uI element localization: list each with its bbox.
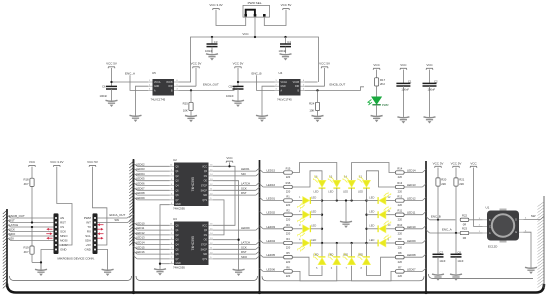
left bus wall (hatched): [3, 209, 7, 288]
svg-text:SDA: SDA: [85, 239, 91, 243]
svg-text:ENC_A: ENC_A: [442, 228, 452, 232]
svg-text:LED09: LED09: [407, 239, 416, 243]
svg-text:16: 16: [210, 165, 212, 167]
wire LED04 to ring: [293, 242, 303, 244]
ground (LED ring common): [340, 199, 352, 228]
svg-text:74LVC1T45: 74LVC1T45: [151, 98, 166, 102]
LED ring bottom diode 8: [358, 243, 371, 270]
svg-text:C4: C4: [287, 40, 291, 44]
svg-text:74HC595: 74HC595: [191, 236, 195, 250]
svg-text:LED11: LED11: [136, 226, 145, 230]
svg-text:12: 12: [210, 243, 212, 245]
LED ring left diode 1: [298, 195, 322, 209]
svg-text:LED: LED: [328, 190, 333, 194]
svg-text:SDI: SDI: [241, 172, 246, 176]
power selector header PWR SEL: [243, 5, 270, 17]
net LED03 + resistor R3 220: [260, 223, 293, 236]
svg-text:R17: R17: [380, 78, 386, 82]
net LED10 + resistor R10 220: [396, 223, 427, 236]
svg-text:220: 220: [286, 190, 291, 194]
wire LED11 to ring: [386, 214, 396, 216]
power flag VCC 5V (U5 DIR): [191, 62, 202, 69]
svg-text:LED12: LED12: [407, 197, 416, 201]
pin stubs U4: [275, 80, 306, 90]
pin stubs U3: [170, 224, 214, 264]
svg-text:6: 6: [171, 193, 172, 195]
net ENC_A wire: [426, 228, 460, 233]
net LED11 + resistor R11 220: [396, 209, 427, 222]
net RST from left wall: [7, 218, 54, 222]
svg-text:VCCB: VCCB: [166, 82, 173, 84]
svg-text:SDI: SDI: [9, 236, 14, 240]
svg-text:0R: 0R: [463, 236, 466, 240]
svg-text:VCC: VCC: [426, 63, 433, 67]
svg-text:SW: SW: [531, 214, 536, 218]
svg-text:220: 220: [286, 260, 291, 264]
LED ring top diode 15: [328, 175, 341, 201]
svg-text:220: 220: [286, 203, 291, 207]
svg-text:PWR SEL.: PWR SEL.: [248, 1, 263, 5]
svg-text:LED: LED: [369, 238, 374, 242]
svg-text:220: 220: [286, 246, 291, 250]
capacitor C4 100nF: [279, 37, 292, 54]
LED ring top diode 13: [358, 175, 371, 201]
bottom common bus (thick): [7, 284, 544, 293]
svg-text:VCC: VCC: [242, 32, 249, 36]
svg-text:74HC595: 74HC595: [191, 177, 195, 191]
ground (C2): [424, 117, 436, 124]
net LED09 + resistor R9 220: [396, 237, 427, 250]
junction gnd: [40, 261, 42, 263]
svg-text:R1: R1: [286, 195, 290, 199]
wire VCC to U5 pin 1: [111, 68, 113, 86]
LED ring left diode 2: [298, 209, 322, 223]
svg-text:AN: AN: [60, 216, 64, 220]
LED ring bottom diode 7: [343, 243, 356, 270]
ground (U2/U3): [154, 269, 166, 276]
svg-text:7: 7: [171, 198, 172, 200]
wire VCC 3.3V to +3.3V pin: [57, 167, 72, 245]
svg-text:MR: MR: [203, 195, 207, 197]
ground (U5 A-side): [130, 115, 142, 122]
svg-text:CS: CS: [60, 225, 64, 229]
svg-text:6: 6: [177, 80, 178, 82]
svg-text:SW: SW: [114, 218, 119, 222]
resistor R17 2K2: [375, 70, 386, 97]
ground (mikroBUS right): [102, 269, 114, 276]
power flag VCC 5V (C6 column): [106, 62, 117, 69]
svg-text:R15: R15: [286, 167, 291, 171]
svg-text:1: 1: [171, 228, 172, 230]
svg-text:LED09: LED09: [241, 226, 250, 230]
wire LED07 route: [352, 267, 396, 281]
svg-text:RST: RST: [241, 191, 247, 195]
svg-text:LED06: LED06: [267, 267, 276, 271]
svg-text:STCP: STCP: [201, 186, 208, 188]
junction ENC_B/R20: [437, 219, 439, 221]
svg-text:100nF: 100nF: [401, 87, 409, 91]
svg-text:R10: R10: [397, 223, 402, 227]
svg-text:LED15: LED15: [136, 245, 145, 249]
svg-text:LED11: LED11: [407, 211, 416, 215]
svg-text:ENC_B: ENC_B: [251, 71, 261, 75]
LED PWR (green): [368, 97, 382, 105]
svg-text:DIR: DIR: [295, 86, 299, 88]
svg-text:4K7: 4K7: [24, 182, 29, 186]
LED ring left diode 3: [298, 223, 322, 237]
power flag VCC 3.3V (mikroBUS): [50, 160, 63, 167]
svg-text:VCCA: VCCA: [154, 81, 161, 84]
section box bottoms (thin): [10, 276, 132, 281]
svg-text:ENCB_OUT: ENCB_OUT: [9, 214, 25, 218]
svg-text:GND: GND: [60, 248, 66, 252]
junction B/R24: [316, 89, 318, 91]
svg-text:10: 10: [210, 193, 212, 195]
svg-text:ENCB_OUT: ENCB_OUT: [330, 82, 346, 86]
LED ring right diode 10: [367, 220, 392, 233]
svg-text:C6: C6: [102, 84, 106, 88]
svg-text:100nF: 100nF: [428, 87, 436, 91]
power flag VCC (R18): [29, 160, 36, 167]
net ENC_B wire: [426, 214, 455, 219]
svg-text:R18: R18: [23, 178, 29, 182]
resistor R22 0R: [460, 213, 482, 226]
svg-text:220: 220: [398, 217, 403, 221]
pin stubs U2: [170, 165, 214, 205]
wall led-ring/encoder: [425, 161, 427, 292]
junction R18/RST: [31, 221, 33, 223]
svg-text:4: 4: [171, 184, 172, 186]
wire U5 B output ENCA_OUT: [179, 87, 238, 91]
svg-text:10nF: 10nF: [457, 259, 463, 263]
svg-text:LED: LED: [311, 238, 316, 242]
wire ENC_B to C7: [437, 220, 439, 254]
wire U5 DIR to VCC 5V flag: [179, 85, 197, 87]
LED ring left diode 4: [298, 237, 322, 251]
svg-text:100nF: 100nF: [205, 49, 213, 53]
svg-text:VCC 3.3V: VCC 3.3V: [209, 3, 222, 7]
svg-text:OE: OE: [204, 240, 208, 242]
svg-text:3: 3: [171, 238, 172, 240]
svg-text:SHCP: SHCP: [201, 249, 208, 251]
svg-text:MIKROBUS DEVICE CONN.: MIKROBUS DEVICE CONN.: [57, 256, 94, 260]
svg-text:ENCA_OUT: ENCA_OUT: [203, 82, 219, 86]
svg-text:SCL: SCL: [85, 234, 91, 238]
svg-text:LED: LED: [311, 224, 316, 228]
svg-text:PWR: PWR: [382, 103, 389, 107]
svg-text:100nF: 100nF: [279, 49, 287, 53]
ground (C3): [206, 54, 218, 61]
svg-text:LED10: LED10: [407, 225, 416, 229]
net SDO from left wall: [7, 232, 54, 236]
svg-text:R4: R4: [286, 237, 290, 241]
svg-text:VCCB: VCCB: [293, 82, 300, 84]
net LATCH from left wall: [7, 223, 54, 227]
wire U4 B output ENCB_OUT: [305, 87, 364, 91]
wire VCC 5V to +5V pin: [93, 167, 107, 245]
mikroBUS right pin header: [93, 213, 98, 254]
IC U3 74HC595 body: [174, 222, 209, 266]
svg-text:74LVC1T45: 74LVC1T45: [277, 98, 292, 102]
svg-text:R7: R7: [398, 265, 402, 269]
wire ENC_A to C8: [455, 233, 457, 254]
capacitor C6 100nF: [100, 84, 118, 100]
capacitor C5 100nF: [226, 84, 244, 100]
wire VCC 3.3V to jumper pin 1: [216, 10, 246, 26]
wire jumper pin 2 to VCC rail: [254, 17, 256, 37]
power flag VCC (C2): [426, 63, 433, 70]
ground (R24): [312, 116, 324, 123]
svg-text:22K: 22K: [441, 182, 446, 186]
capacitor C7 10nF: [433, 251, 446, 275]
svg-text:0R: 0R: [463, 223, 466, 227]
svg-text:R13: R13: [397, 181, 402, 185]
svg-text:5: 5: [303, 84, 304, 86]
LED ring bottom diode 6: [328, 243, 341, 270]
wire encoder pin 5 to ground: [524, 232, 532, 267]
svg-text:11: 11: [210, 189, 212, 191]
net LED01 + resistor R1 220: [260, 195, 293, 208]
power flag VCC 5V (mikroBUS): [87, 160, 98, 167]
svg-text:LED05: LED05: [267, 253, 276, 257]
svg-text:R20: R20: [441, 178, 447, 182]
bus junction 1: [132, 291, 135, 294]
svg-text:D: D: [515, 219, 517, 222]
svg-text:4: 4: [177, 89, 178, 91]
svg-text:10K: 10K: [309, 108, 314, 112]
svg-text:VCC 3V: VCC 3V: [433, 161, 444, 165]
svg-text:VCC: VCC: [29, 160, 36, 164]
svg-text:LED13: LED13: [136, 236, 145, 240]
svg-text:220: 220: [398, 190, 403, 194]
ground (R25): [185, 116, 197, 123]
svg-text:ENC_B: ENC_B: [431, 214, 441, 218]
net LED13 + resistor R13 220: [396, 181, 427, 194]
svg-text:15: 15: [210, 228, 212, 230]
svg-text:100nF: 100nF: [226, 94, 234, 98]
wire left GND to ground: [41, 250, 54, 270]
svg-text:220: 220: [398, 260, 403, 264]
svg-text:U2: U2: [173, 158, 177, 162]
wire VCC to encoder pin 2: [474, 168, 483, 227]
IC U2 74HC595 body: [174, 163, 209, 207]
bus junction 2: [258, 291, 261, 294]
svg-text:U3: U3: [173, 217, 177, 221]
svg-text:8: 8: [171, 203, 172, 205]
svg-text:12: 12: [210, 184, 212, 186]
right net labels U2: [213, 167, 260, 195]
svg-text:9: 9: [210, 198, 211, 200]
wire U3 GND: [160, 263, 170, 265]
svg-text:16: 16: [210, 224, 212, 226]
svg-text:DIR: DIR: [169, 86, 173, 88]
svg-text:TX: TX: [87, 225, 91, 229]
svg-text:220: 220: [286, 231, 291, 235]
svg-text:VCC: VCC: [400, 63, 407, 67]
svg-text:RST: RST: [60, 221, 66, 225]
svg-text:220: 220: [398, 203, 403, 207]
svg-text:2: 2: [275, 84, 276, 86]
IC U4 74LVC1T45 body: [279, 79, 301, 96]
svg-text:LED: LED: [328, 252, 333, 256]
right bus wall (hatched): [538, 196, 545, 288]
net ENCA_OUT to wall: [98, 213, 134, 218]
svg-text:10nF: 10nF: [439, 259, 445, 263]
mikroBUS left pin names: [60, 216, 68, 252]
power flag VCC 5V (C5 column): [233, 62, 244, 69]
capacitor C3 100nF: [205, 37, 218, 54]
svg-text:VCC 5V: VCC 5V: [281, 3, 292, 7]
svg-text:14: 14: [210, 174, 212, 176]
resistor R24 10K: [309, 90, 319, 116]
svg-text:7: 7: [171, 257, 172, 259]
capacitor C8 10nF: [451, 251, 464, 275]
svg-text:1: 1: [171, 169, 172, 171]
svg-text:15: 15: [170, 165, 172, 167]
svg-text:R3: R3: [286, 223, 290, 227]
svg-text:R21: R21: [459, 178, 465, 182]
svg-text:VCC 5V: VCC 5V: [87, 160, 98, 164]
svg-text:220: 220: [398, 246, 403, 250]
svg-text:SCK: SCK: [241, 245, 247, 249]
mikroBUS right pin names: [84, 216, 92, 252]
svg-text:LATCH: LATCH: [241, 241, 250, 245]
power flag VCC (shift registers): [226, 156, 233, 163]
LED ring bottom diode 5: [313, 243, 326, 270]
encoder right pin stubs: [515, 218, 527, 235]
svg-text:VCC 5V: VCC 5V: [191, 62, 202, 66]
svg-text:U5: U5: [152, 71, 156, 75]
junction rail-C3: [211, 36, 213, 38]
net LED04 + resistor R4 220: [260, 237, 293, 250]
svg-text:PWM: PWM: [84, 216, 92, 220]
wire OE bus to ground: [213, 181, 239, 270]
svg-text:220: 220: [398, 175, 403, 179]
svg-text:LED: LED: [311, 195, 316, 199]
wire LED14 route: [352, 163, 396, 178]
svg-text:U1: U1: [486, 206, 490, 210]
wire LED16 route: [293, 171, 322, 187]
svg-text:VCC 5V: VCC 5V: [233, 62, 244, 66]
ground (C6): [106, 100, 118, 107]
wire LED10 to ring: [386, 228, 396, 230]
wire U4 VCCB to rail: [305, 81, 318, 83]
svg-text:220: 220: [286, 217, 291, 221]
LED ring right diode 9: [367, 234, 391, 247]
svg-text:DS: DS: [204, 235, 208, 237]
junction VCC/C6: [110, 81, 112, 83]
power flag VCC (PWR LED): [373, 63, 380, 70]
wire U4 DIR to VCC 5V flag: [305, 85, 325, 87]
wire LED9 to ring: [386, 242, 396, 244]
svg-text:14: 14: [210, 233, 212, 235]
net LED15 + resistor R15 220: [260, 167, 293, 180]
svg-text:2: 2: [171, 174, 172, 176]
svg-text:LED16: LED16: [267, 183, 276, 187]
svg-text:LED04: LED04: [136, 172, 145, 176]
wall mikrobus/shift-register (hatched): [129, 159, 133, 292]
svg-text:LED16: LED16: [136, 250, 145, 254]
svg-text:VCC: VCC: [373, 63, 380, 67]
svg-text:LED05: LED05: [136, 177, 145, 181]
svg-text:LED: LED: [358, 190, 363, 194]
ground (C7): [432, 274, 444, 281]
wire VCC 5V to jumper pin 3: [264, 10, 286, 26]
wire LED05 route: [293, 257, 322, 275]
svg-text:LED07: LED07: [407, 267, 416, 271]
ground (C5): [232, 100, 244, 107]
svg-text:5: 5: [177, 84, 178, 86]
wire LED15 route: [293, 163, 337, 178]
svg-text:SCK: SCK: [241, 186, 247, 190]
svg-text:R25: R25: [183, 102, 189, 106]
svg-text:R11: R11: [398, 209, 403, 213]
net LED02 + resistor R2 220: [260, 209, 293, 222]
svg-text:R19: R19: [23, 246, 29, 250]
wire U5 VCCB to rail: [179, 81, 192, 83]
svg-text:LED10: LED10: [136, 221, 145, 225]
svg-text:8: 8: [171, 262, 172, 264]
junction rail-jumper: [254, 36, 256, 38]
svg-text:74HC595: 74HC595: [173, 207, 185, 211]
svg-text:R14: R14: [397, 167, 402, 171]
svg-text:3: 3: [149, 89, 150, 91]
ground (OE bus): [233, 269, 245, 276]
left net wires U2: [134, 162, 170, 200]
svg-text:LED14: LED14: [407, 169, 416, 173]
LED ring inner common square: [322, 201, 367, 244]
svg-text:LED02: LED02: [267, 211, 276, 215]
svg-text:15: 15: [170, 224, 172, 226]
svg-text:LED: LED: [314, 252, 319, 256]
svg-text:6: 6: [303, 80, 304, 82]
svg-text:VCC: VCC: [226, 156, 233, 160]
wire LED06 route: [293, 267, 337, 281]
svg-text:220: 220: [286, 274, 291, 278]
LED ring top diode 14: [343, 175, 356, 201]
power flag VCC 3.3V: [209, 3, 222, 10]
svg-text:ENC_A: ENC_A: [125, 71, 135, 75]
net LED06 + resistor R6 220: [260, 265, 293, 278]
inner square junctions: [321, 199, 368, 244]
rotary encoder U1 EC12D body: [487, 209, 519, 243]
svg-text:C5: C5: [229, 84, 233, 88]
svg-text:10: 10: [210, 252, 212, 254]
bus junction 3: [424, 291, 427, 294]
net LED16 + resistor R16 220: [260, 181, 293, 194]
resistor R19 4K7: [23, 227, 41, 270]
svg-text:LED15: LED15: [267, 169, 276, 173]
svg-text:SCK: SCK: [9, 227, 15, 231]
svg-text:VCC 5V: VCC 5V: [319, 62, 330, 66]
svg-text:LED: LED: [343, 252, 348, 256]
svg-text:4: 4: [171, 243, 172, 245]
net LED05 + resistor R5 220: [260, 251, 293, 264]
svg-text:VCC: VCC: [202, 225, 207, 227]
svg-text:LATCH: LATCH: [9, 223, 18, 227]
svg-text:VCC 3.3V: VCC 3.3V: [50, 160, 63, 164]
svg-text:DS: DS: [204, 176, 208, 178]
svg-text:9: 9: [210, 257, 211, 259]
wire VCC to U2/U3 pin 16: [229, 162, 231, 166]
svg-text:100nF: 100nF: [100, 94, 108, 98]
power flag VCC 5V (U4 DIR): [319, 62, 330, 69]
svg-text:LED02: LED02: [136, 162, 145, 166]
junction GND U3: [159, 263, 161, 265]
svg-text:Q7S: Q7S: [202, 259, 207, 261]
svg-text:LED: LED: [343, 190, 348, 194]
svg-text:C3: C3: [214, 40, 218, 44]
